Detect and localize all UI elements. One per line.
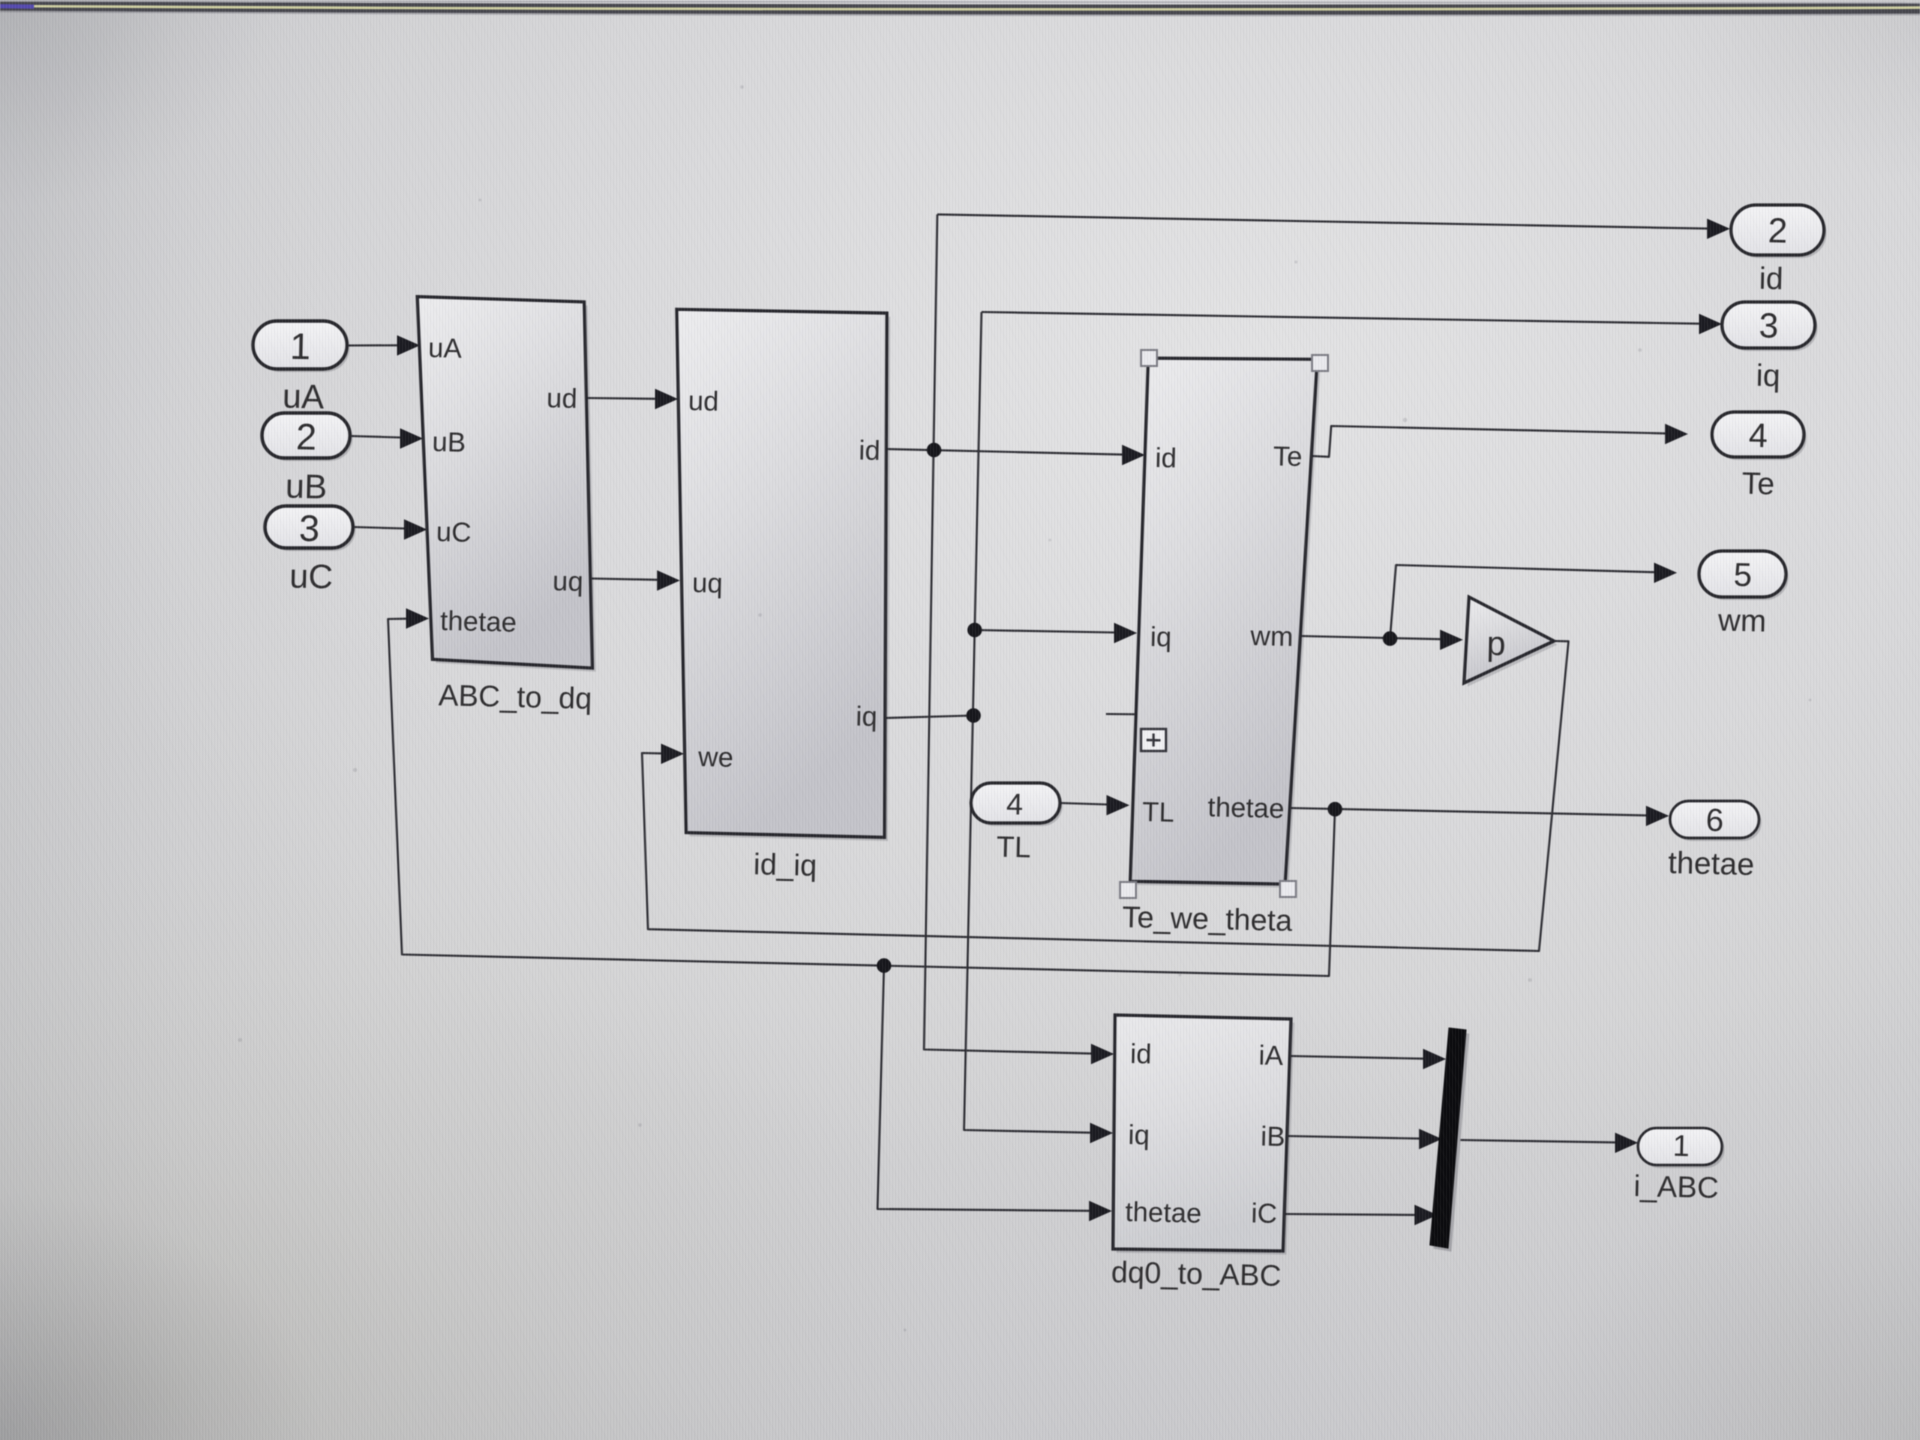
svg-text:id: id [1155, 442, 1177, 473]
svg-text:uB: uB [432, 426, 466, 458]
svg-text:thetae: thetae [1668, 845, 1755, 882]
svg-text:thetae: thetae [1207, 791, 1284, 824]
svg-text:p: p [1486, 625, 1506, 663]
svg-text:iq: iq [1128, 1119, 1150, 1150]
svg-text:iB: iB [1260, 1120, 1285, 1152]
svg-text:dq0_to_ABC: dq0_to_ABC [1111, 1256, 1282, 1293]
svg-text:id: id [1759, 261, 1784, 297]
svg-text:uC: uC [436, 516, 472, 548]
svg-text:uC: uC [289, 558, 333, 597]
svg-text:2: 2 [1768, 211, 1788, 250]
svg-text:id: id [858, 435, 880, 466]
svg-text:wm: wm [1717, 602, 1767, 638]
svg-text:TL: TL [1142, 796, 1175, 828]
svg-text:4: 4 [1006, 788, 1023, 821]
svg-text:id_iq: id_iq [753, 848, 817, 882]
svg-text:2: 2 [296, 416, 318, 457]
svg-text:uq: uq [692, 567, 723, 599]
svg-text:6: 6 [1705, 802, 1724, 838]
svg-text:3: 3 [1759, 306, 1779, 345]
svg-text:iq: iq [1756, 358, 1781, 394]
svg-text:1: 1 [1672, 1130, 1689, 1163]
svg-text:we: we [697, 741, 734, 773]
svg-text:1: 1 [290, 326, 312, 367]
svg-text:3: 3 [299, 508, 321, 549]
svg-text:ud: ud [546, 382, 577, 414]
svg-text:uA: uA [282, 378, 325, 417]
svg-text:i_ABC: i_ABC [1633, 1170, 1719, 1205]
svg-text:uA: uA [428, 332, 463, 364]
svg-text:id: id [1130, 1038, 1152, 1069]
svg-text:iq: iq [1150, 621, 1172, 652]
svg-text:Te: Te [1273, 440, 1303, 472]
svg-text:ABC_to_dq: ABC_to_dq [438, 679, 592, 715]
svg-text:5: 5 [1733, 556, 1752, 593]
svg-text:thetae: thetae [440, 605, 517, 638]
svg-text:thetae: thetae [1125, 1196, 1202, 1229]
svg-text:iA: iA [1258, 1039, 1284, 1071]
svg-text:wm: wm [1249, 620, 1293, 652]
svg-text:4: 4 [1748, 417, 1768, 455]
svg-text:Te_we_theta: Te_we_theta [1122, 901, 1293, 938]
svg-text:ud: ud [688, 385, 719, 417]
svg-text:iq: iq [855, 701, 877, 732]
svg-text:Te: Te [1741, 466, 1775, 502]
svg-text:uB: uB [285, 468, 327, 507]
svg-text:TL: TL [996, 831, 1031, 865]
svg-text:iC: iC [1251, 1197, 1278, 1229]
svg-text:uq: uq [552, 565, 583, 597]
